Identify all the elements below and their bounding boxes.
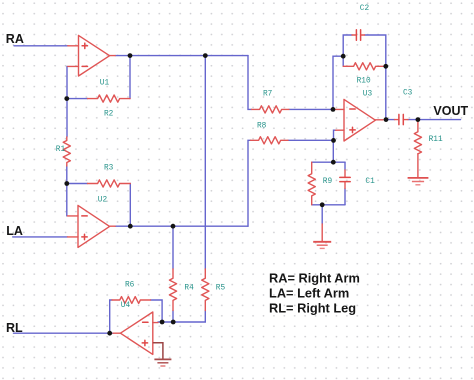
- wire R7 to U3 minus: [289, 108, 333, 110]
- svg-text:LA: LA: [6, 224, 23, 238]
- wire R2 right riser to U1 out: [129, 56, 131, 99]
- capacitor C1: [340, 162, 350, 205]
- wire R9/C1 top rail: [312, 161, 345, 163]
- svg-text:R9: R9: [323, 178, 333, 186]
- svg-text:U3: U3: [363, 90, 373, 98]
- wire U2 output bus: [115, 225, 248, 227]
- wire U3 out to C3: [386, 119, 395, 121]
- wire R6 right riser: [151, 300, 163, 322]
- svg-text:R6: R6: [125, 281, 135, 289]
- resistor R7: [252, 106, 290, 113]
- wire U3 plus riser: [334, 130, 336, 140]
- resistor R6: [112, 297, 151, 304]
- capacitor C2: [352, 30, 365, 40]
- ground below R9/C1: [313, 224, 331, 248]
- wire R1 to R3 rail: [66, 166, 68, 216]
- resistor R9: [308, 162, 315, 205]
- wire R3 right riser to U2 out: [129, 184, 131, 227]
- svg-text:RA= Right Arm: RA= Right Arm: [269, 270, 360, 285]
- wire R3 left: [67, 183, 88, 185]
- svg-text:U1: U1: [100, 79, 110, 87]
- wire gnd riser below R9/C1: [321, 205, 323, 224]
- wire U2-out drop to R4: [172, 226, 174, 269]
- wire U1 minus to R2/R1 rail: [66, 66, 68, 137]
- wire U1-out drop to R5: [204, 56, 206, 269]
- wire R10 left riser: [342, 56, 344, 66]
- wire drop to R7: [248, 56, 252, 110]
- wire VOUT: [418, 119, 461, 121]
- wire RA input: [14, 45, 68, 47]
- wire RL input: [14, 332, 114, 334]
- wire R6 left riser: [110, 300, 112, 333]
- svg-text:R7: R7: [263, 91, 273, 99]
- svg-text:C2: C2: [360, 5, 370, 13]
- svg-text:R11: R11: [429, 136, 443, 144]
- ground below R11: [408, 154, 429, 185]
- svg-text:R1: R1: [56, 146, 66, 154]
- resistor R5: [202, 269, 209, 311]
- svg-text:RL= Right Leg: RL= Right Leg: [269, 301, 356, 316]
- wire C2 left branch: [343, 35, 352, 56]
- op-amp U2: [68, 205, 116, 247]
- resistor R1: [63, 137, 70, 166]
- wire feedback rail to U3 out: [385, 66, 387, 119]
- wire C3 to VOUT node: [408, 119, 418, 121]
- wire LA input: [13, 236, 68, 238]
- svg-text:VOUT: VOUT: [433, 104, 468, 118]
- svg-text:R10: R10: [357, 78, 371, 86]
- ground at U4 plus input: [153, 343, 172, 366]
- op-amp U4: [113, 312, 158, 354]
- resistor R11: [414, 120, 421, 154]
- wire U1 output bus: [115, 55, 248, 57]
- svg-text:LA= Left Arm: LA= Left Arm: [269, 286, 349, 301]
- svg-text:R3: R3: [104, 165, 114, 173]
- op-amp U1: [68, 35, 115, 76]
- resistor R3: [88, 180, 131, 187]
- svg-text:RL: RL: [6, 321, 23, 335]
- svg-text:R5: R5: [216, 285, 226, 293]
- wire node to R9/C1: [332, 140, 334, 162]
- wire R8 to U3 plus node: [288, 139, 334, 141]
- svg-text:U2: U2: [98, 197, 108, 205]
- op-amp U3: [334, 99, 384, 141]
- resistor R10: [343, 63, 386, 70]
- wire R5 bottom to U4 minus line: [158, 311, 205, 323]
- legend: [269, 270, 360, 315]
- wire C2 right branch: [365, 35, 386, 66]
- wire U3 minus to feedback: [333, 56, 343, 109]
- svg-text:RA: RA: [6, 32, 24, 46]
- resistor R2: [88, 95, 131, 102]
- svg-text:R8: R8: [257, 123, 267, 131]
- wire R9/C1 bottom rail: [312, 204, 345, 206]
- svg-text:R4: R4: [184, 285, 194, 293]
- svg-text:R2: R2: [104, 111, 114, 119]
- svg-text:U4: U4: [121, 302, 131, 310]
- wire rise to R8: [248, 140, 251, 226]
- resistor R8: [251, 137, 289, 144]
- wire R2 left: [67, 98, 88, 100]
- capacitor C3: [395, 114, 409, 124]
- svg-text:C3: C3: [403, 89, 413, 97]
- svg-text:C1: C1: [365, 178, 375, 186]
- wire R4 bottom: [172, 311, 174, 323]
- resistor R4: [169, 269, 176, 311]
